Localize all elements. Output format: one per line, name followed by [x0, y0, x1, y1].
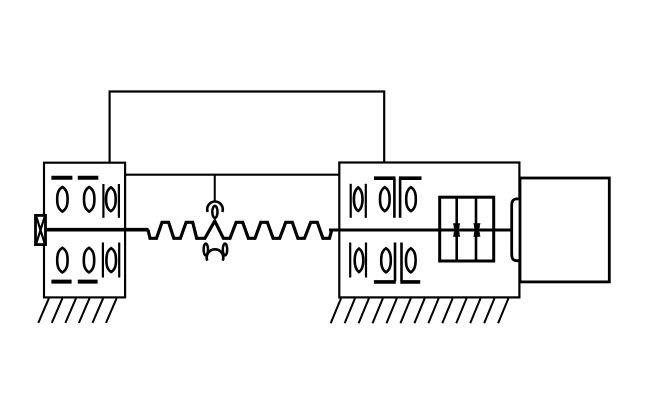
bearing ball B5 [84, 248, 94, 273]
right bearing housing [339, 163, 519, 298]
bearing race dash bottom-left [51, 280, 71, 284]
ball nut hanger [214, 175, 216, 201]
thrust bearing B10 [350, 243, 366, 278]
machine table frame [110, 92, 385, 164]
ground hatching left [38, 298, 116, 323]
bearing ball B2 [84, 187, 94, 212]
angular bearing B11 [374, 243, 396, 282]
coupling disc 1 [455, 197, 458, 261]
coupling joint X1 [454, 223, 460, 237]
thrust bearing B7 [351, 184, 366, 218]
bearing race dash bottom-mid [78, 280, 98, 284]
thrust bearing B3 [103, 184, 119, 218]
angular bearing B9 [399, 178, 422, 218]
thrust bearing B6 [103, 243, 119, 278]
coupling disc 2 [475, 197, 478, 261]
bearing race dash top-mid [78, 176, 99, 180]
bearing ball B1 [57, 187, 67, 212]
angular bearing B8 [374, 178, 396, 218]
ground hatching right [331, 298, 509, 323]
shaft right segment [329, 229, 511, 232]
shaft left segment [47, 228, 149, 232]
motor [520, 178, 609, 282]
ball nut [204, 201, 228, 260]
bearing ball B4 [57, 248, 67, 273]
coupling joint X2 [474, 223, 480, 237]
angular bearing B12 [400, 243, 420, 282]
motor flange [512, 199, 521, 261]
left bearing housing [44, 163, 125, 298]
table mount line [125, 174, 340, 176]
bearing race dash top-left [51, 176, 72, 180]
lead screw thread [148, 221, 332, 238]
coupling body [440, 197, 494, 261]
fixed end support [36, 215, 46, 244]
